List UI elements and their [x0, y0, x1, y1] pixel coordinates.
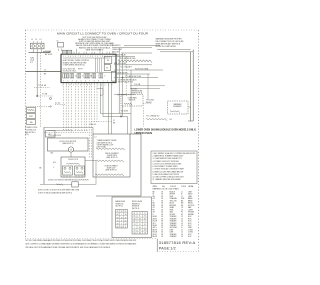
svg-text:NOTE: DOOR LOCK MOTOR IS OFF W: NOTE: DOOR LOCK MOTOR IS OFF WHEN THE OV…	[38, 190, 80, 192]
resistor broil element	[96, 160, 124, 162]
svg-text:PAGE:1/2: PAGE:1/2	[159, 247, 176, 251]
svg-text:RELAY: RELAY	[146, 101, 152, 104]
fuse block F3	[27, 120, 36, 125]
convection fan motor box	[121, 95, 143, 107]
page border bottom	[25, 238, 157, 240]
wire warmer to bus	[188, 106, 191, 108]
terminal block TB1	[30, 43, 44, 49]
wire L1 bus top	[157, 49, 191, 51]
svg-text:HARNESS COLOR CODE CHART: HARNESS COLOR CODE CHART	[153, 188, 179, 191]
node junction left	[37, 95, 38, 96]
wire neutral drop	[36, 53, 38, 96]
svg-text:71: 71	[144, 213, 146, 215]
wire row 53	[121, 52, 152, 54]
fuse block F2	[27, 114, 36, 119]
resistor RTD row	[118, 60, 152, 63]
svg-text:45: 45	[91, 76, 93, 78]
switch S1	[63, 166, 73, 175]
wire dashed row 121.5	[91, 121, 112, 123]
wire junction dotted right	[37, 95, 53, 97]
page border left	[24, 30, 26, 239]
wire row 85.8 tod	[130, 85, 165, 87]
resistance table box	[112, 197, 152, 238]
svg-text:10: 10	[125, 214, 127, 216]
svg-text:19: 19	[139, 232, 141, 234]
left table grid	[116, 210, 128, 229]
svg-text:L1: L1	[31, 39, 33, 41]
control board top bus line	[63, 57, 110, 59]
connector J1 above board	[62, 50, 67, 54]
control board internal line	[95, 58, 97, 72]
svg-text:69: 69	[117, 217, 119, 219]
svg-text:12: 12	[139, 213, 141, 215]
oven outer box	[140, 134, 142, 196]
svg-text:11. CABINET MUST BE GROUNDED: 11. CABINET MUST BE GROUNDED	[153, 178, 182, 181]
svg-text:L1: L1	[44, 69, 46, 71]
svg-text:42: 42	[117, 211, 119, 213]
terminal block leads	[32, 49, 34, 53]
svg-text:(SEE NOTE 2): (SEE NOTE 2)	[105, 170, 117, 172]
wire risers right of motor box	[88, 83, 90, 157]
svg-text:13: 13	[121, 217, 123, 219]
control board relay contacts	[63, 74, 65, 78]
svg-text:12: 12	[125, 223, 127, 225]
wire stubs into board top	[73, 52, 75, 54]
wire dashed drop	[39, 53, 41, 128]
page border top	[25, 29, 199, 31]
wire row 47.6	[112, 47, 152, 49]
wire harness bottom rail	[44, 126, 93, 128]
wire motor to switch	[70, 152, 72, 157]
svg-text:REPLACE ONLY WITH MANUFACTURER: REPLACE ONLY WITH MANUFACTURER ORIGINAL …	[26, 246, 111, 249]
svg-text:20: 20	[181, 236, 183, 238]
svg-text:LOWER OVEN SHOWN (DOUBLE OVEN: LOWER OVEN SHOWN (DOUBLE OVEN MODELS ONL…	[135, 127, 197, 131]
wire dashed horizontal 106	[26, 106, 50, 108]
svg-text:RECEPTACLE W-V: RECEPTACLE W-V	[118, 81, 134, 84]
wire row 56	[113, 55, 135, 57]
svg-text:TO 2B: TO 2B	[42, 94, 48, 96]
motor M1	[68, 147, 73, 152]
door lock motor box	[48, 138, 89, 151]
svg-text:81: 81	[144, 218, 146, 220]
wire drops into oven top	[108, 83, 110, 134]
svg-text:AVIS: COUPER LE COURANT AVANT: AVIS: COUPER LE COURANT AVANT DE FAIRE L…	[26, 243, 137, 246]
node power junction	[29, 52, 51, 54]
svg-text:70: 70	[144, 232, 146, 234]
wire dashed door lock top	[44, 132, 88, 134]
svg-text:7. CHECK GROUND CONTINUITY PAT: 7. CHECK GROUND CONTINUITY PATH	[153, 168, 185, 171]
svg-text:(NOTE 3): (NOTE 3)	[132, 208, 140, 210]
svg-text:K7: K7	[106, 67, 108, 69]
wire dashed short 121	[120, 107, 122, 117]
wire harness below board	[63, 83, 65, 131]
wire row 88.4	[130, 87, 160, 89]
svg-text:BU-W: BU-W	[153, 236, 158, 238]
svg-text:MAIN CIRCUIT L1 CONNECT TO OVE: MAIN CIRCUIT L1 CONNECT TO OVEN / CIRCUI…	[57, 32, 148, 35]
svg-text:16: 16	[134, 218, 136, 220]
right table grid	[132, 212, 148, 235]
node bus bottom tick	[188, 120, 193, 122]
wire short bend below board	[97, 88, 104, 90]
wire mid-left dashes	[34, 87, 50, 89]
door lock switch box	[61, 157, 85, 177]
svg-text:SW-1 BK: SW-1 BK	[112, 52, 120, 54]
wire row 45.3	[124, 44, 160, 46]
svg-text:N.O.: N.O.	[53, 162, 57, 164]
svg-text:18: 18	[161, 236, 163, 238]
svg-text:74: 74	[134, 224, 136, 226]
coil door lock	[67, 163, 80, 165]
svg-text:(P-1): (P-1)	[25, 134, 29, 136]
svg-text:8-1 W-BK: 8-1 W-BK	[121, 110, 129, 112]
svg-text:6-1 6-2: 6-1 6-2	[55, 103, 60, 105]
wire left riser door lock	[43, 127, 45, 184]
svg-text:8. WIRE COLORS PER CHART BELOW: 8. WIRE COLORS PER CHART BELOW	[153, 170, 184, 173]
svg-text:56: 56	[117, 227, 119, 229]
title block bottom dots	[157, 251, 199, 253]
svg-text:COMPONENT SIDE (EOC): COMPONENT SIDE (EOC)	[63, 65, 85, 67]
svg-text:L2-BK 6-2: L2-BK 6-2	[89, 124, 96, 126]
switch S2	[75, 166, 85, 175]
relay small box left	[46, 131, 56, 138]
svg-text:31: 31	[134, 213, 136, 215]
svg-text:(SEE NOTE 2): (SEE NOTE 2)	[106, 157, 118, 159]
wire drops right of board	[118, 48, 120, 114]
svg-text:TO L2 HI-LIMIT: TO L2 HI-LIMIT	[120, 67, 132, 69]
svg-text:K1 K2 K3 K4 K5: K1 K2 K3 K4 K5	[63, 68, 75, 70]
svg-text:L1 BAKE RELAY: L1 BAKE RELAY	[113, 54, 127, 57]
svg-text:29: 29	[139, 218, 141, 220]
control board divider	[61, 71, 116, 73]
svg-text:AL 12 AL 2: AL 12 AL 2	[43, 50, 51, 53]
svg-text:NOTICE: THIS WIRING DIAGRAM IS: NOTICE: THIS WIRING DIAGRAM IS PROVIDED …	[26, 239, 137, 242]
svg-text:TOD 2A: TOD 2A	[134, 83, 141, 86]
svg-text:20: 20	[121, 211, 123, 213]
svg-text:75: 75	[139, 224, 141, 226]
svg-text:WORK IS COMPLETED: WORK IS COMPLETED	[156, 46, 177, 48]
control board right verticals	[97, 58, 99, 72]
component top-left small box	[58, 43, 64, 48]
svg-text:81: 81	[134, 221, 136, 223]
svg-text:54: 54	[121, 227, 123, 229]
wire row 77.5	[114, 77, 158, 79]
svg-text:28: 28	[117, 223, 119, 225]
svg-text:MOTOR: MOTOR	[129, 100, 136, 102]
svg-text:RL1 RL2 RL3 RL4: RL1 RL2 RL3 RL4	[63, 71, 76, 73]
wire bend into oven left	[101, 113, 132, 115]
svg-text:84: 84	[117, 214, 119, 216]
svg-text:(NOTE 2): (NOTE 2)	[116, 206, 124, 208]
svg-text:73: 73	[144, 216, 146, 218]
svg-text:318577816 REV:A: 318577816 REV:A	[159, 240, 196, 245]
wire row 94.6 with resistor	[114, 94, 135, 96]
svg-text:51: 51	[144, 224, 146, 226]
svg-text:18: 18	[139, 230, 141, 232]
wire L2 bus vertical	[192, 50, 194, 122]
svg-text:1. ALL WIRING 18 GA 105°C COPP: 1. ALL WIRING 18 GA 105°C COPPER UNLESS …	[153, 152, 197, 155]
wire row 184.4 with plug	[40, 183, 72, 185]
svg-text:47: 47	[125, 217, 127, 219]
svg-text:8-2: 8-2	[170, 119, 173, 121]
svg-text:51: 51	[125, 211, 127, 213]
svg-text:72: 72	[134, 230, 136, 232]
svg-text:ELEMENT: ELEMENT	[173, 106, 182, 108]
wire L1 to board	[26, 71, 61, 73]
wire rail to oven corner	[92, 127, 94, 134]
wire drops board bottom right	[94, 83, 96, 122]
svg-text:65: 65	[125, 220, 127, 222]
wire L1 bus vertical	[190, 52, 192, 121]
svg-text:BK W RD: BK W RD	[45, 54, 53, 56]
page border right	[198, 30, 200, 251]
resistor conv winding	[124, 103, 132, 105]
svg-text:75: 75	[139, 221, 141, 223]
svg-text:K6: K6	[107, 60, 109, 62]
svg-text:3. OVEN SENSOR 1080 OHM AT 75°: 3. OVEN SENSOR 1080 OHM AT 75°F	[153, 157, 182, 160]
svg-text:(SEE TECH SHEET): (SEE TECH SHEET)	[86, 49, 104, 51]
resistor door lock feed	[48, 129, 63, 131]
wire L2 bus top	[160, 51, 193, 53]
svg-text:DOOR LOCK SWITCH SHOWN IN UNLO: DOOR LOCK SWITCH SHOWN IN UNLOCK POSITIO…	[48, 179, 89, 181]
svg-text:DOOR LOCK: DOOR LOCK	[68, 159, 79, 161]
connector tall box right	[111, 72, 115, 82]
wire dashes 104.6	[55, 104, 66, 106]
svg-text:L2: L2	[95, 136, 97, 138]
svg-text:50: 50	[57, 41, 59, 43]
svg-text:TO LK 1A: TO LK 1A	[38, 84, 47, 87]
svg-text:P6 P8: P6 P8	[78, 68, 82, 70]
svg-text:240V TOTAL: 240V TOTAL	[97, 145, 107, 148]
resistor conv element	[95, 174, 124, 176]
control board EOC U1	[61, 54, 116, 82]
svg-text:P-2: P-2	[30, 62, 33, 64]
terminal block label ticks	[32, 41, 34, 43]
svg-text:TO LATCH SW COM: TO LATCH SW COM	[125, 75, 141, 78]
svg-text:29: 29	[139, 227, 141, 229]
wire switch to right	[85, 160, 96, 162]
svg-text:SW-BLW R: SW-BLW R	[112, 45, 121, 47]
svg-text:2. BAKE BROIL ELEMENT RATED 24: 2. BAKE BROIL ELEMENT RATED 240V	[153, 155, 185, 158]
switch pin ticks	[63, 175, 65, 178]
svg-text:75: 75	[117, 220, 119, 222]
svg-text:TRACER: TRACER	[170, 235, 178, 238]
relay K7	[104, 65, 110, 71]
fuse block F1	[27, 108, 36, 113]
relay K6	[104, 57, 112, 64]
wire dashed 143.6	[143, 108, 145, 127]
notes list box	[151, 151, 197, 184]
svg-text:38: 38	[144, 230, 146, 232]
svg-text:(SEE NOTE 5): (SEE NOTE 5)	[62, 143, 74, 145]
svg-text:54: 54	[134, 232, 136, 234]
svg-text:TO L1 RELAY 8-2: TO L1 RELAY 8-2	[146, 115, 159, 118]
svg-text:55: 55	[134, 216, 136, 218]
svg-text:12: 12	[75, 76, 77, 78]
warmer element dashed box	[168, 101, 189, 114]
svg-text:TO DOOR LOCK: TO DOOR LOCK	[48, 135, 62, 137]
title block divider	[156, 239, 158, 252]
svg-text:CODE: CODE	[181, 186, 187, 188]
oven cavity box	[93, 134, 130, 177]
resistor bake element	[96, 148, 125, 150]
